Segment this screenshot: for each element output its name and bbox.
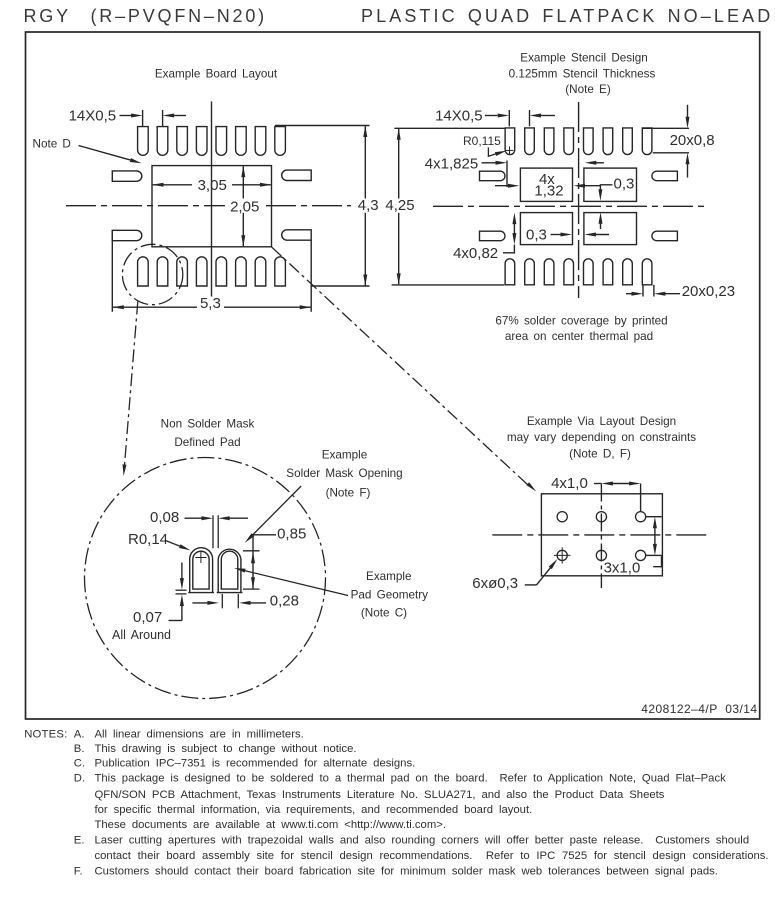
dimension 4,25 stencil height [385, 128, 414, 285]
note D [74, 772, 726, 831]
svg-text:4x1,825: 4x1,825 [425, 155, 478, 172]
dimension 3x1,0 via pitch vertical [604, 517, 662, 577]
dimension 4x1,0 via pitch horizontal [551, 475, 641, 511]
board layout: lower-right outline extension [310, 240, 312, 312]
dimension 0,3 vertical gap [598, 175, 634, 229]
dimension 4,3 extension lines [275, 126, 370, 287]
svg-text:Customers should contact their: Customers should contact their board fab… [95, 865, 718, 877]
svg-text:All linear dimensions are in m: All linear dimensions are in millimeters… [95, 729, 304, 741]
dimension 4,25 extension lines [392, 128, 505, 285]
svg-text:Laser cutting apertures with t: Laser cutting apertures with trapezoidal… [95, 835, 750, 847]
dimension 5,3 board width [112, 295, 311, 312]
board layout: bottom pad row (8 pads) [138, 257, 286, 286]
detail: right pad mask opening [217, 549, 243, 592]
dimension 4x1,825 corner aperture reach [425, 155, 604, 187]
via layout: thermal pad outline [541, 494, 662, 576]
svg-text:1,32: 1,32 [534, 183, 563, 200]
detail: left pad copper [193, 551, 209, 589]
dimension 4x0,82 aperture height [453, 213, 516, 262]
drawing border frame [26, 32, 760, 719]
board layout: vertical center line [211, 102, 213, 297]
dimension 20x0,23 aperture width [626, 283, 735, 300]
stencil: thermal apertures 2x2 [520, 168, 636, 245]
via center mark on lower-left via [554, 547, 570, 563]
svg-text:0,08: 0,08 [150, 509, 179, 526]
svg-text:All Around: All Around [112, 628, 171, 642]
leader from detail circle to magnified view [123, 302, 138, 477]
detail: left pad mask opening [188, 548, 214, 593]
dimension 20x0,8 aperture length [643, 105, 715, 178]
svg-text:R0,14: R0,14 [128, 531, 168, 548]
dimension R0,115 corner radius [463, 134, 513, 156]
svg-text:20x0,23: 20x0,23 [682, 283, 735, 300]
board layout: horizontal center line [66, 205, 225, 207]
svg-text:area on center thermal pad: area on center thermal pad [505, 330, 653, 343]
note E [74, 835, 769, 862]
svg-text:NOTES:: NOTES: [24, 729, 67, 741]
stencil design: title [509, 52, 656, 96]
dimension 3,05 thermal pad width [152, 177, 272, 194]
svg-text:B.: B. [74, 743, 85, 755]
svg-text:This package is designed to be: This package is designed to be soldered … [95, 772, 727, 784]
svg-text:4x0,82: 4x0,82 [453, 245, 498, 262]
dimension 1,32 arrows [495, 184, 600, 188]
stencil: horizontal center line [433, 205, 705, 207]
svg-text:This drawing is subject to cha: This drawing is subject to change withou… [95, 743, 357, 755]
svg-text:PLASTIC QUAD FLATPACK NO–LEAD: PLASTIC QUAD FLATPACK NO–LEAD [361, 6, 773, 26]
note D leader [79, 146, 142, 164]
svg-text:Example Stencil Design: Example Stencil Design [520, 52, 647, 65]
note B [74, 743, 357, 755]
stencil: left side apertures [480, 171, 506, 241]
svg-text:3x1,0: 3x1,0 [604, 559, 641, 576]
svg-text:14X0,5: 14X0,5 [435, 108, 483, 125]
svg-text:0,28: 0,28 [270, 593, 299, 610]
via layout: vertical center line [600, 484, 602, 589]
dimension 0,08 mask web width [150, 509, 248, 548]
svg-text:(Note C): (Note C) [361, 607, 407, 620]
svg-text:RGY (R–PVQFN–N20): RGY (R–PVQFN–N20) [24, 6, 267, 26]
svg-text:A.: A. [74, 729, 85, 741]
svg-text:R0,115: R0,115 [463, 134, 501, 148]
svg-text:4208122–4/P 03/14: 4208122–4/P 03/14 [641, 702, 757, 716]
board layout: left side pads [112, 171, 142, 241]
note C [74, 758, 415, 770]
detail: left pad radius center mark [195, 552, 206, 563]
svg-text:0,07: 0,07 [133, 609, 162, 626]
svg-text:F.: F. [74, 865, 83, 877]
stencil: top aperture row (8) [505, 128, 652, 155]
svg-text:Non Solder Mask: Non Solder Mask [161, 417, 255, 430]
svg-text:4,25: 4,25 [385, 197, 414, 214]
svg-text:D.: D. [74, 772, 85, 784]
board layout: thermal pad [152, 166, 272, 247]
label 4x 1,32 aperture size [534, 171, 563, 199]
svg-text:0.125mm Stencil Thickness: 0.125mm Stencil Thickness [509, 68, 656, 81]
svg-text:Pad Geometry: Pad Geometry [351, 589, 429, 602]
svg-text:These documents are available: These documents are available at www.ti.… [95, 819, 446, 831]
svg-text:C.: C. [74, 758, 85, 770]
dimension 6x diameter 0,3 via size [472, 559, 557, 592]
svg-text:4,3: 4,3 [358, 197, 379, 214]
dimension R0,14 pad radius [128, 531, 191, 550]
svg-text:2,05: 2,05 [230, 198, 259, 215]
svg-text:0,85: 0,85 [277, 525, 306, 542]
leader from thermal pad to via layout figure [272, 247, 536, 491]
board layout: top pad row (8 pads) [138, 127, 286, 156]
detail: right pad copper [221, 551, 238, 589]
label example pad geometry [351, 570, 429, 620]
dimension 0,85 pad length [243, 525, 306, 589]
svg-text:for specific thermal informati: for specific thermal information, via re… [95, 804, 533, 816]
stencil: vertical center line [578, 102, 580, 298]
board layout: horizontal center line right part [266, 205, 351, 207]
board layout: lower-left outline extension [111, 230, 113, 312]
label example solder mask opening [286, 448, 402, 499]
leader pad geometry to right pad [234, 568, 348, 596]
svg-text:67% solder coverage by printed: 67% solder coverage by printed [495, 314, 667, 327]
svg-text:0,3: 0,3 [526, 226, 547, 243]
board layout: right side pads [282, 170, 312, 240]
via layout: horizontal center line [492, 534, 710, 536]
svg-text:Example: Example [322, 448, 367, 461]
dimension 14X0,5 pitch (stencil) [435, 108, 555, 127]
dimension 0,28 pad width [192, 593, 299, 610]
detail circle (magnified view) [85, 458, 326, 699]
svg-text:Example Via Layout Design: Example Via Layout Design [527, 415, 676, 428]
svg-text:(Note F): (Note F) [326, 486, 371, 499]
svg-text:Example Board Layout: Example Board Layout [155, 67, 278, 80]
svg-text:5,3: 5,3 [200, 295, 221, 312]
dimension 4,3 board height [358, 126, 379, 287]
detail circle on bottom pads [122, 244, 182, 304]
svg-text:Solder Mask Opening: Solder Mask Opening [286, 467, 402, 480]
svg-text:(Note E): (Note E) [565, 83, 611, 96]
svg-text:4x1,0: 4x1,0 [551, 475, 588, 492]
svg-text:20x0,8: 20x0,8 [670, 132, 715, 149]
svg-text:Publication IPC–7351 is recomm: Publication IPC–7351 is recommended for … [95, 758, 416, 770]
svg-text:14X0,5: 14X0,5 [69, 108, 117, 125]
svg-text:E.: E. [74, 835, 85, 847]
dimension 2,05 thermal pad height [230, 166, 259, 247]
via layout: title [507, 415, 696, 460]
svg-text:QFN/SON PCB Attachment, Texas: QFN/SON PCB Attachment, Texas Instrument… [95, 789, 665, 801]
svg-text:6xø0,3: 6xø0,3 [472, 575, 518, 592]
note F [74, 865, 718, 877]
note A [74, 729, 304, 741]
via holes (6) [557, 512, 646, 561]
svg-text:(Note D, F): (Note D, F) [569, 447, 631, 460]
stencil: bottom aperture row (8) [505, 259, 652, 285]
detail: label non solder mask defined pad [161, 417, 255, 449]
dimension 14X0,5 pad pitch (board) [69, 108, 186, 127]
svg-text:may vary depending on constrai: may vary depending on constraints [507, 431, 696, 444]
svg-text:Example: Example [366, 570, 411, 583]
svg-text:3,05: 3,05 [198, 177, 227, 194]
svg-text:0,3: 0,3 [614, 175, 635, 192]
svg-text:Defined Pad: Defined Pad [174, 436, 240, 449]
svg-text:Note D: Note D [33, 137, 71, 150]
dimension 0,3 horizontal gap [526, 226, 609, 243]
svg-text:contact their board assembly s: contact their board assembly site for st… [95, 850, 769, 862]
stencil: right side apertures [652, 171, 678, 241]
stencil: solder coverage caption [495, 314, 667, 342]
leader solder mask opening to right pad [245, 486, 301, 543]
dimension 0,07 mask clearance [112, 563, 187, 642]
